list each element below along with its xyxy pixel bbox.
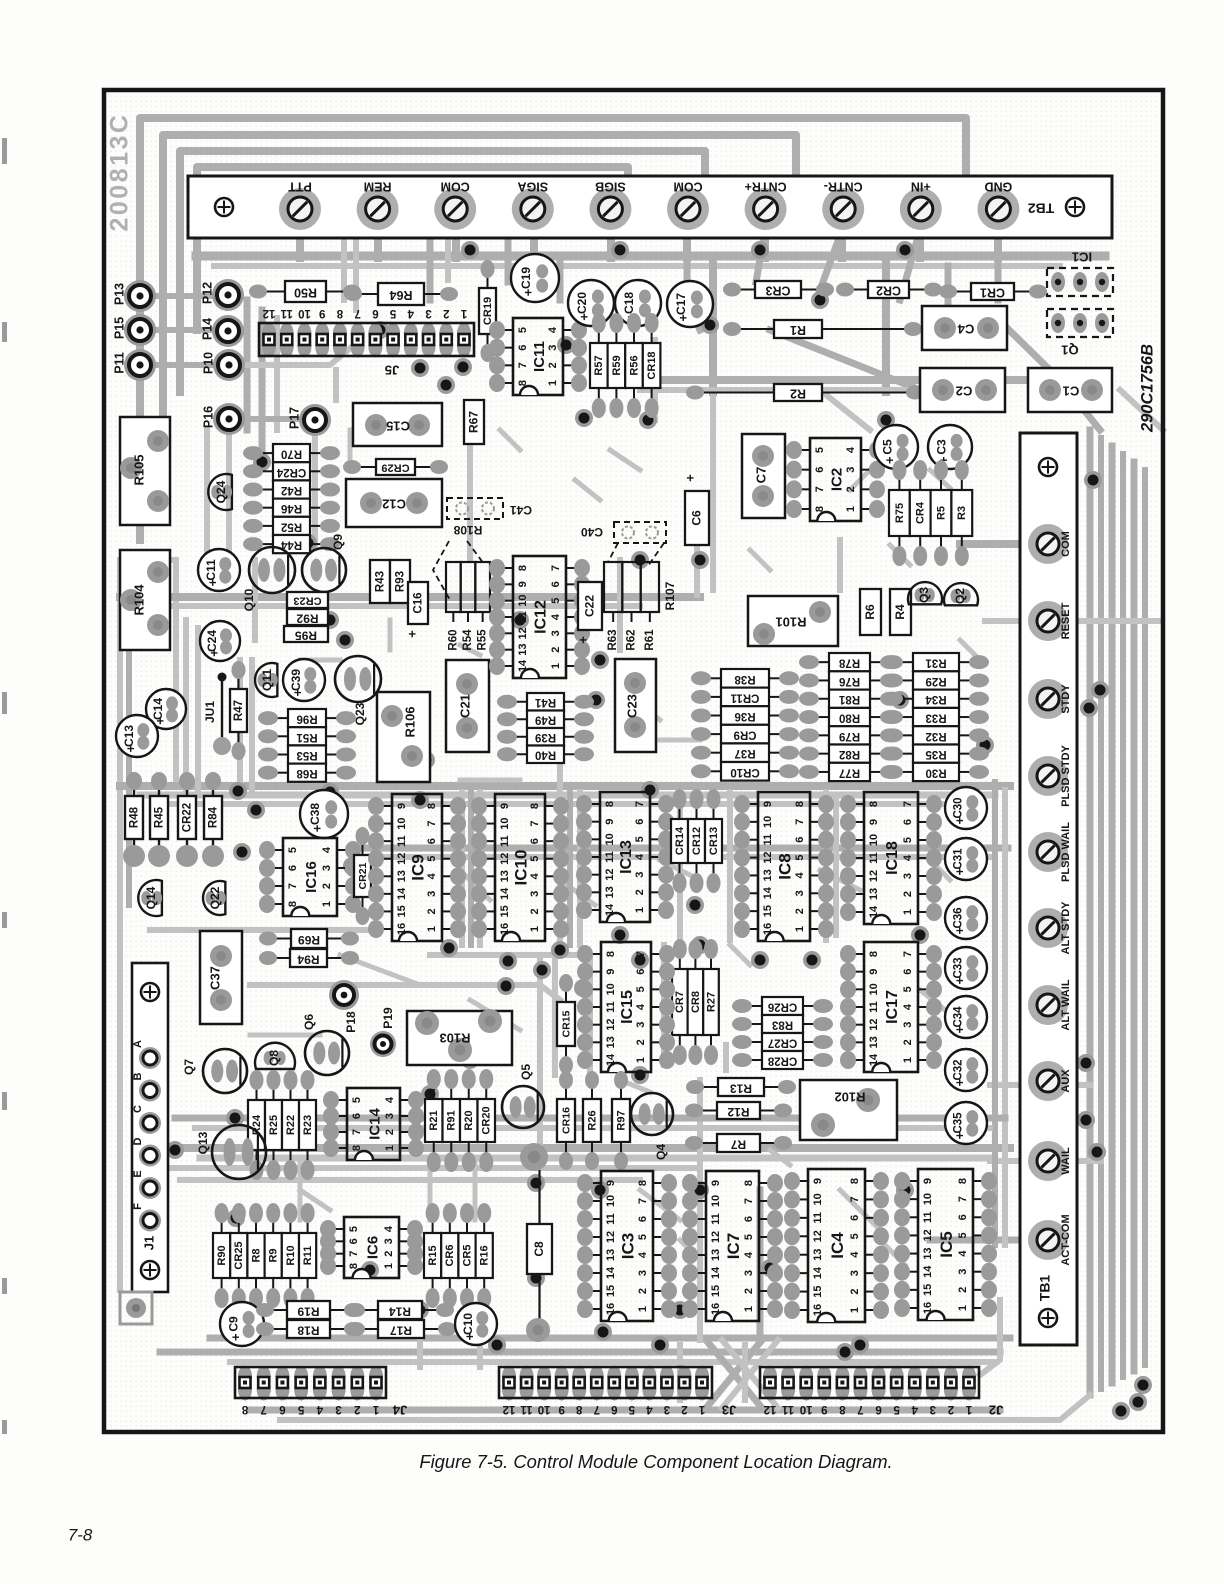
resistor R26	[591, 1085, 593, 1099]
capacitor C1	[1028, 368, 1112, 412]
svg-text:6: 6	[351, 1113, 363, 1119]
terminal TB1 PLSD STDY	[1028, 756, 1068, 796]
resistor R77	[815, 771, 829, 773]
svg-text:12: 12	[605, 1019, 617, 1031]
svg-text:+: +	[676, 314, 691, 322]
svg-text:GND: GND	[985, 180, 1013, 194]
svg-text:Q6: Q6	[302, 1014, 316, 1030]
capacitor C20	[568, 280, 614, 326]
svg-text:+: +	[205, 578, 220, 586]
svg-text:13: 13	[517, 644, 529, 656]
svg-text:13: 13	[762, 869, 774, 881]
mount pad bottom-left	[120, 1292, 152, 1324]
wire C8 vertical	[538, 1170, 540, 1224]
svg-text:3: 3	[902, 873, 914, 879]
svg-text:R12: R12	[727, 1105, 749, 1119]
svg-text:1: 1	[321, 901, 333, 907]
svg-text:9: 9	[812, 1178, 824, 1184]
IC IC3	[589, 1182, 601, 1184]
svg-text:P12: P12	[200, 282, 214, 304]
svg-text:2: 2	[529, 908, 541, 914]
svg-text:9: 9	[605, 969, 617, 975]
svg-text:8: 8	[575, 1403, 582, 1415]
capacitor C33	[945, 947, 987, 989]
terminal TB1 COM	[1028, 524, 1068, 564]
svg-text:7: 7	[354, 307, 360, 319]
svg-text:+: +	[290, 688, 305, 696]
svg-text:5: 5	[628, 1403, 635, 1415]
resistor R67	[464, 400, 484, 444]
svg-text:10: 10	[499, 817, 511, 829]
resistor R96	[274, 717, 288, 719]
svg-text:R17: R17	[390, 1323, 412, 1337]
resistor R1	[737, 328, 774, 330]
svg-text:P16: P16	[201, 406, 215, 428]
svg-text:+: +	[575, 636, 590, 644]
diode CR10	[707, 770, 721, 772]
capacitor C38	[300, 790, 348, 838]
svg-text:A: A	[132, 1040, 144, 1048]
screw TB2 right	[1066, 198, 1084, 216]
svg-text:10: 10	[604, 833, 616, 845]
svg-text:R51: R51	[296, 731, 318, 743]
svg-text:2: 2	[794, 908, 806, 914]
svg-text:R19: R19	[297, 1304, 319, 1318]
svg-text:R75: R75	[894, 503, 906, 523]
svg-text:JU1: JU1	[203, 701, 217, 723]
svg-text:+: +	[577, 313, 592, 321]
resistor R102	[800, 1080, 897, 1140]
svg-text:IC2: IC2	[828, 468, 845, 491]
svg-text:CR11: CR11	[730, 691, 759, 703]
svg-text:CR20: CR20	[481, 1106, 493, 1134]
svg-text:10: 10	[396, 817, 408, 829]
svg-text:COM: COM	[441, 180, 470, 194]
svg-text:CR18: CR18	[646, 351, 658, 379]
svg-text:C3: C3	[934, 439, 948, 455]
resistor R57	[598, 329, 600, 343]
resistor R10	[289, 1219, 291, 1233]
svg-text:10: 10	[298, 307, 311, 319]
svg-text:R22: R22	[285, 1115, 297, 1135]
svg-text:13: 13	[396, 870, 408, 882]
svg-text:R57: R57	[593, 355, 605, 375]
svg-text:Q4: Q4	[654, 1144, 668, 1160]
svg-text:C36: C36	[953, 907, 965, 928]
board outline	[104, 90, 1163, 1432]
svg-text:R84: R84	[208, 806, 220, 828]
svg-text:R34: R34	[925, 693, 947, 705]
svg-text:12: 12	[710, 1231, 722, 1243]
svg-text:10: 10	[922, 1193, 934, 1205]
svg-text:IC5: IC5	[937, 1231, 956, 1257]
svg-text:9: 9	[604, 819, 616, 825]
svg-text:C24: C24	[205, 630, 219, 652]
IC IC10	[483, 805, 495, 807]
svg-text:R23: R23	[302, 1115, 314, 1135]
svg-text:CR22: CR22	[182, 803, 194, 832]
svg-text:R92: R92	[296, 611, 318, 625]
resistor R33	[899, 716, 913, 718]
svg-text:9: 9	[396, 803, 408, 809]
svg-text:2: 2	[637, 1288, 649, 1294]
resistor R5	[940, 476, 942, 490]
svg-text:5: 5	[957, 1232, 969, 1238]
svg-text:Q22: Q22	[208, 886, 222, 909]
svg-text:10: 10	[868, 983, 880, 995]
resistor R94	[273, 957, 290, 959]
svg-text:R6: R6	[863, 604, 877, 620]
diode CR20	[485, 1085, 487, 1099]
svg-text:CR14: CR14	[674, 826, 686, 855]
svg-text:Q2: Q2	[953, 588, 967, 604]
svg-text:IC15: IC15	[619, 990, 636, 1024]
svg-text:+: +	[952, 816, 967, 824]
svg-text:J1: J1	[141, 1236, 156, 1250]
terminal TB2 SIGB	[589, 188, 631, 230]
resistor R22	[290, 1086, 292, 1100]
svg-text:5: 5	[297, 1403, 304, 1415]
svg-text:1: 1	[635, 1057, 647, 1063]
svg-text:R46: R46	[281, 502, 302, 514]
svg-text:R60: R60	[447, 629, 459, 650]
svg-text:2: 2	[635, 1039, 647, 1045]
diode CR22	[186, 783, 188, 796]
capacitor C12	[346, 479, 442, 527]
svg-text:8: 8	[241, 1403, 248, 1415]
svg-text:8: 8	[839, 1403, 846, 1415]
svg-text:CR21: CR21	[357, 862, 369, 889]
svg-text:4: 4	[902, 1003, 914, 1010]
svg-text:16: 16	[605, 1303, 617, 1315]
svg-text:R76: R76	[839, 675, 860, 687]
capacitor C17	[667, 281, 713, 327]
svg-text:Q5: Q5	[519, 1064, 533, 1080]
svg-text:CR19: CR19	[482, 297, 494, 325]
svg-text:Q8: Q8	[267, 1050, 281, 1066]
svg-text:C15: C15	[386, 419, 410, 434]
svg-text:5: 5	[634, 836, 646, 842]
svg-text:5: 5	[902, 837, 914, 843]
svg-text:15: 15	[499, 905, 511, 917]
svg-text:CR15: CR15	[560, 1010, 572, 1037]
svg-text:8: 8	[348, 1263, 360, 1269]
svg-text:Q11: Q11	[260, 669, 274, 691]
transistor Q4	[631, 1093, 673, 1135]
svg-text:C4: C4	[957, 322, 974, 337]
resistor R12	[699, 1110, 717, 1112]
capacitor C40 dashed	[614, 522, 666, 543]
svg-text:10: 10	[517, 595, 529, 607]
resistor R91	[450, 1085, 452, 1099]
diode CR26	[748, 1005, 762, 1007]
resistor R95	[284, 626, 328, 642]
transistor Q3	[908, 582, 942, 604]
svg-text:R15: R15	[427, 1245, 439, 1265]
resistor R42	[259, 489, 273, 491]
svg-text:12: 12	[263, 307, 276, 319]
resistor R92	[287, 609, 328, 625]
svg-text:11: 11	[762, 834, 774, 846]
svg-text:13: 13	[605, 1249, 617, 1261]
svg-text:10: 10	[538, 1403, 551, 1415]
trace network	[140, 118, 966, 540]
resistor R48	[133, 783, 135, 796]
svg-text:R80: R80	[839, 712, 860, 724]
svg-text:5: 5	[517, 327, 529, 333]
screw TB1 top	[1039, 458, 1057, 476]
diode CR15	[565, 988, 567, 1002]
svg-text:ALT STDY: ALT STDY	[1060, 901, 1072, 955]
svg-text:7: 7	[957, 1196, 969, 1202]
svg-text:7: 7	[849, 1196, 861, 1202]
svg-text:6: 6	[902, 819, 914, 825]
svg-text:R90: R90	[216, 1245, 228, 1265]
terminal TB1 ALT WAIL	[1028, 985, 1068, 1025]
svg-text:9: 9	[762, 801, 774, 807]
svg-text:R47: R47	[233, 700, 245, 721]
terminal TB1 RESET	[1028, 601, 1068, 641]
svg-text:TB1: TB1	[1037, 1275, 1053, 1302]
svg-text:CR13: CR13	[708, 827, 720, 855]
svg-text:+: +	[123, 744, 138, 752]
svg-text:12: 12	[604, 869, 616, 881]
resistor R14	[361, 1309, 378, 1311]
svg-text:R54: R54	[462, 629, 474, 651]
svg-text:6: 6	[635, 969, 647, 975]
svg-text:14: 14	[499, 887, 511, 900]
svg-text:16: 16	[710, 1303, 722, 1315]
svg-text:C33: C33	[953, 957, 965, 978]
diode CR8	[694, 955, 696, 969]
svg-text:4: 4	[384, 1096, 396, 1103]
resistor R41	[513, 701, 527, 703]
connector J4	[238, 1366, 252, 1388]
svg-text:10: 10	[762, 816, 774, 828]
capacitor C4	[922, 306, 1007, 350]
resistor R15	[432, 1219, 434, 1233]
IC IC2	[798, 449, 810, 451]
svg-text:SIGA: SIGA	[518, 180, 549, 194]
svg-text:7: 7	[426, 821, 438, 827]
svg-text:3: 3	[637, 1270, 649, 1276]
resistor R29	[899, 679, 913, 681]
svg-text:R16: R16	[479, 1245, 491, 1265]
svg-text:Q9: Q9	[331, 534, 345, 550]
svg-text:R91: R91	[446, 1110, 458, 1130]
svg-text:11: 11	[517, 611, 529, 623]
svg-text:13: 13	[604, 886, 616, 898]
resistor R84	[212, 783, 214, 796]
terminal TB1 ALT STDY	[1028, 908, 1068, 948]
svg-text:CR5: CR5	[461, 1244, 473, 1266]
svg-text:1: 1	[957, 1305, 969, 1311]
capacitor C23	[615, 659, 656, 752]
svg-text:IC8: IC8	[775, 853, 794, 879]
svg-text:R93: R93	[395, 571, 407, 592]
svg-text:C20: C20	[575, 292, 589, 314]
connector J2	[763, 1366, 777, 1388]
resistor R34	[899, 698, 913, 700]
IC IC16	[271, 849, 283, 851]
svg-text:6: 6	[611, 1403, 617, 1415]
svg-text:13: 13	[499, 870, 511, 882]
svg-text:J5: J5	[385, 363, 399, 378]
svg-text:16: 16	[812, 1304, 824, 1316]
svg-text:12: 12	[499, 853, 511, 865]
svg-text:16: 16	[762, 923, 774, 935]
page edge scan marks	[2, 138, 7, 164]
capacitor C3	[928, 425, 972, 469]
svg-text:IC1: IC1	[1072, 250, 1092, 265]
svg-text:R102: R102	[834, 1090, 865, 1105]
svg-text:3: 3	[426, 891, 438, 897]
resistor R69	[273, 938, 291, 940]
svg-text:9: 9	[710, 1180, 722, 1186]
svg-text:R4: R4	[893, 604, 907, 620]
svg-text:7: 7	[794, 819, 806, 825]
svg-text:P10: P10	[201, 352, 215, 374]
svg-text:R29: R29	[925, 675, 946, 687]
svg-text:13: 13	[868, 1036, 880, 1048]
svg-text:1: 1	[965, 1403, 972, 1415]
screw TB1 bottom	[1039, 1309, 1057, 1327]
svg-text:5: 5	[849, 1233, 861, 1239]
svg-text:R40: R40	[535, 749, 556, 761]
svg-text:3: 3	[383, 1238, 395, 1244]
svg-text:P14: P14	[200, 318, 214, 340]
svg-text:R95: R95	[295, 628, 317, 642]
svg-text:4: 4	[637, 1251, 649, 1258]
terminal TB2 +IN	[900, 188, 942, 230]
svg-text:R13: R13	[730, 1081, 752, 1095]
svg-text:14: 14	[762, 886, 774, 899]
svg-text:SIGB: SIGB	[595, 180, 626, 194]
svg-text:14: 14	[605, 1053, 617, 1066]
capacitor C39	[283, 659, 325, 701]
svg-text:+: +	[520, 288, 535, 296]
svg-text:6: 6	[372, 307, 378, 319]
transistor Q5	[502, 1086, 544, 1128]
capacitor C10	[455, 1303, 497, 1345]
svg-text:C2: C2	[956, 384, 973, 399]
svg-text:15: 15	[605, 1285, 617, 1297]
terminal strip TB2	[188, 176, 1112, 238]
halftone scan tint	[106, 92, 1161, 1430]
svg-text:10: 10	[605, 1195, 617, 1207]
svg-text:3: 3	[425, 307, 431, 319]
svg-text:R14: R14	[389, 1304, 411, 1318]
test point P14	[212, 315, 244, 347]
resistor pack R63/R62/R61	[604, 562, 622, 612]
diode CR7	[679, 955, 681, 969]
capacitor C5	[874, 425, 918, 469]
svg-text:7: 7	[348, 1251, 360, 1257]
test point P12	[212, 279, 244, 311]
svg-text:2: 2	[681, 1403, 687, 1415]
resistor R103	[407, 1011, 512, 1065]
svg-text:1: 1	[384, 1145, 396, 1151]
svg-text:14: 14	[922, 1265, 934, 1278]
svg-text:5: 5	[893, 1403, 900, 1415]
resistor R19	[270, 1309, 287, 1311]
svg-text:9: 9	[868, 819, 880, 825]
svg-text:R10: R10	[285, 1245, 297, 1265]
capacitor C22	[578, 582, 602, 630]
resistor R11	[307, 1219, 309, 1233]
resistor R79	[815, 734, 829, 736]
test point P19	[370, 1031, 396, 1057]
resistor R104	[120, 550, 170, 650]
svg-text:15: 15	[710, 1285, 722, 1297]
svg-text:C10: C10	[461, 1313, 475, 1335]
resistor R17	[361, 1328, 378, 1330]
svg-text:4: 4	[407, 307, 414, 319]
svg-text:R18: R18	[297, 1323, 319, 1337]
svg-text:3: 3	[384, 1113, 396, 1119]
svg-text:13: 13	[922, 1247, 934, 1259]
terminal TB2 REM	[357, 188, 399, 230]
test point P17	[299, 404, 331, 436]
terminal strip TB1	[1020, 433, 1077, 1345]
capacitor C34	[945, 996, 987, 1038]
svg-text:R107: R107	[663, 581, 677, 610]
diode CR1	[953, 291, 971, 293]
resistor R81	[815, 698, 829, 700]
svg-text:2: 2	[902, 1039, 914, 1045]
resistor R8	[255, 1219, 257, 1233]
svg-text:2: 2	[384, 1129, 396, 1135]
svg-text:1: 1	[634, 907, 646, 913]
svg-text:2: 2	[547, 362, 559, 368]
capacitor C32	[945, 1049, 987, 1091]
svg-text:+: +	[206, 649, 221, 657]
svg-text:C16: C16	[413, 592, 425, 613]
svg-text:4: 4	[550, 613, 562, 620]
resistor pack R60/R54/R55	[446, 562, 461, 612]
svg-text:7: 7	[635, 951, 647, 957]
resistor R82	[815, 753, 829, 755]
svg-text:C6: C6	[690, 510, 704, 526]
svg-text:6: 6	[794, 837, 806, 843]
svg-text:1: 1	[460, 307, 467, 319]
svg-text:14: 14	[396, 887, 408, 900]
resistor R70	[259, 452, 273, 454]
svg-text:15: 15	[812, 1285, 824, 1297]
svg-text:5: 5	[529, 856, 541, 862]
svg-text:R101: R101	[775, 615, 806, 630]
svg-text:9: 9	[558, 1403, 564, 1415]
svg-text:3: 3	[635, 1022, 647, 1028]
svg-text:CR26: CR26	[768, 1000, 797, 1012]
svg-text:15: 15	[762, 905, 774, 917]
resistor R50	[263, 291, 285, 293]
resistor R59	[615, 329, 617, 343]
resistor R6	[860, 589, 881, 635]
capacitor C19	[511, 254, 559, 302]
svg-text:4: 4	[547, 326, 559, 333]
svg-text:R77: R77	[839, 766, 860, 778]
svg-text:3: 3	[743, 1270, 755, 1276]
svg-text:7: 7	[902, 801, 914, 807]
svg-text:16: 16	[499, 923, 511, 935]
svg-text:3: 3	[634, 872, 646, 878]
resistor R53	[274, 754, 288, 756]
diode CR23	[287, 592, 328, 608]
IC IC14	[335, 1099, 347, 1101]
svg-text:C39: C39	[289, 669, 303, 691]
resistor R46	[259, 507, 273, 509]
